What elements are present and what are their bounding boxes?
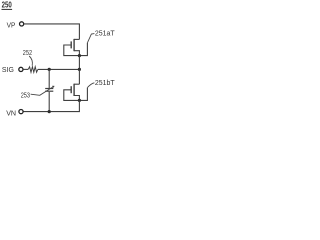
- svg-text:252: 252: [23, 48, 32, 57]
- wire VP rail: [24, 24, 80, 40]
- node: 251aT source/gate junction: [78, 54, 81, 57]
- 251aT drain lead: [74, 38, 79, 40]
- leader line to label 251aT: [87, 34, 94, 43]
- 251aT gate bar: [70, 41, 72, 48]
- node: capacitor tap on SIG: [48, 68, 51, 71]
- 251bT channel bar: [73, 84, 75, 96]
- wire SIG node to 251bT drain: [78, 69, 80, 84]
- wire SIG node down to capacitor: [48, 69, 50, 88]
- 251aT source lead: [74, 51, 79, 56]
- svg-text:253: 253: [21, 91, 30, 100]
- leader line to label 251bT: [87, 83, 94, 88]
- terminal SIG: [2, 65, 23, 74]
- wire 251aT source to SIG node: [78, 56, 80, 70]
- figure number 250: [2, 1, 13, 10]
- 251bT gate lead and gate-source tie box: [64, 88, 88, 101]
- node: SIG / transistor junction: [78, 68, 81, 71]
- svg-text:251aT: 251aT: [95, 28, 115, 37]
- 251aT gate lead and gate-source tie box: [64, 43, 88, 56]
- terminal VN: [6, 109, 23, 118]
- svg-text:VP: VP: [7, 21, 16, 30]
- leader line / variable arrow through capacitor 253: [31, 86, 54, 95]
- svg-text:250: 250: [2, 1, 13, 10]
- leader line to resistor 252: [29, 56, 32, 66]
- 253 top plate: [45, 88, 53, 90]
- 251bT source lead: [74, 96, 79, 101]
- resistor R 252: [28, 67, 38, 72]
- wire SIG to resistor: [23, 68, 28, 70]
- capacitor C 253 (variable): [45, 89, 53, 92]
- 251aT channel bar: [73, 39, 75, 51]
- svg-text:251bT: 251bT: [95, 78, 115, 87]
- wire resistor to SIG rail: [38, 68, 80, 70]
- 253 bottom plate: [45, 90, 53, 92]
- svg-text:SIG: SIG: [2, 65, 14, 74]
- wire 251bT source to VN rail: [23, 100, 79, 111]
- svg-text:VN: VN: [6, 109, 16, 118]
- 251bT gate bar: [70, 86, 72, 93]
- transistor U 251bT: [64, 84, 88, 101]
- terminal VP: [7, 21, 24, 30]
- 251bT drain lead: [74, 83, 79, 85]
- transistor U 251aT: [64, 39, 88, 56]
- node: 251bT source/gate junction: [78, 99, 81, 102]
- node: capacitor / VN rail junction: [48, 110, 51, 113]
- wire capacitor to VN rail: [48, 92, 50, 112]
